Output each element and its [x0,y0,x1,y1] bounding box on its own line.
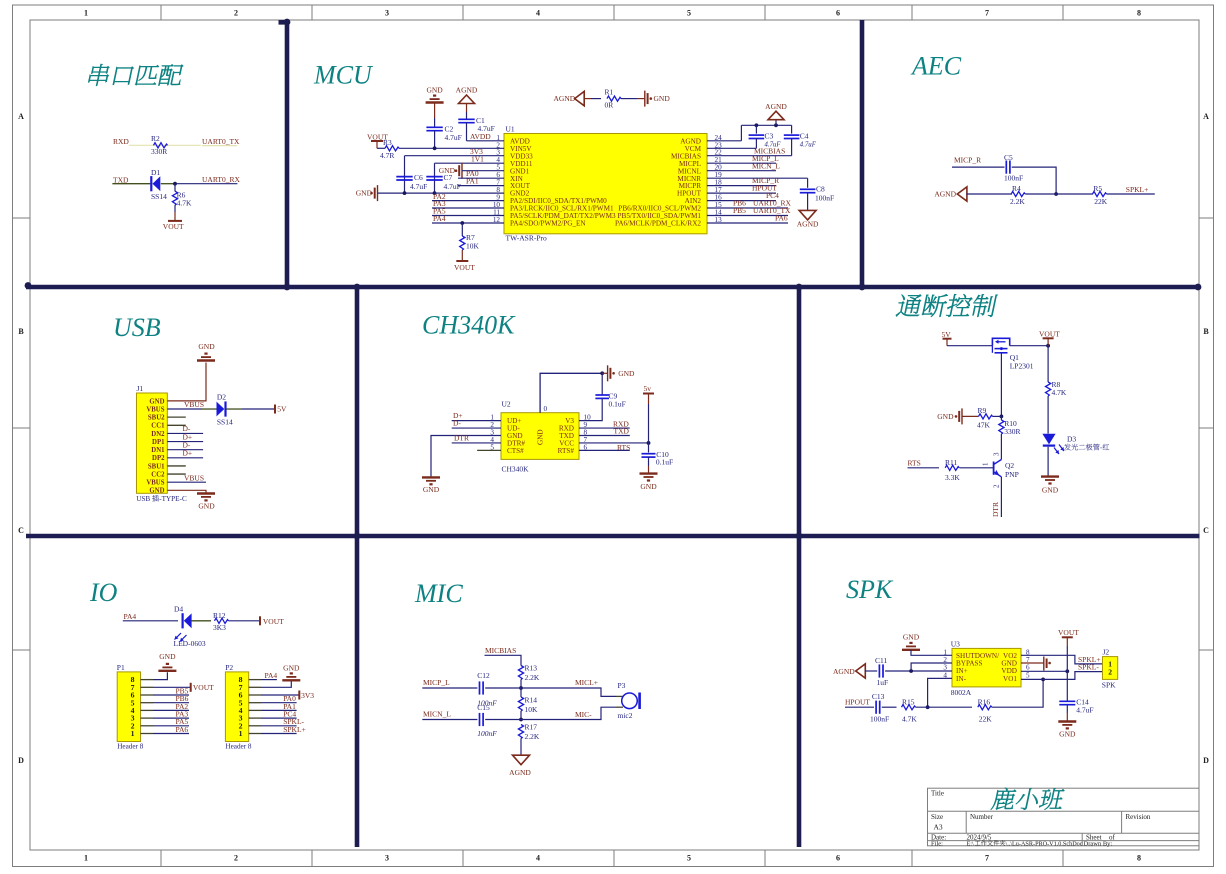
svg-text:LP2301: LP2301 [1010,362,1034,371]
net label PA6 (P1) and wire pin1 [141,733,154,735]
resistor R7 [460,236,465,250]
wire U2 pin6 [579,449,630,451]
wire junction to R5 [1056,193,1093,195]
power port AGND (MCU right) [775,119,777,126]
svg-text:SPK: SPK [1102,681,1116,690]
wire P2 pin7 to GND [249,686,261,688]
capacitor C13 [875,701,877,714]
wire R15 to junction to R16 [916,706,973,708]
svg-text:22K: 22K [979,714,993,723]
svg-text:CC1: CC1 [151,423,165,430]
resistor R3 [385,146,399,151]
svg-text:GND: GND [159,652,176,661]
wire MICP_R to C5 [952,166,1005,168]
svg-text:RTS#: RTS# [558,447,575,455]
svg-text:4.7uF: 4.7uF [1076,706,1093,715]
svg-text:1uF: 1uF [877,678,889,687]
wire pin22 MICBIAS [707,155,792,157]
svg-text:PA4: PA4 [124,612,137,621]
svg-text:5V: 5V [277,405,287,414]
svg-text:6: 6 [836,854,840,863]
svg-text:PA4: PA4 [265,671,278,680]
svg-text:1: 1 [84,854,88,863]
svg-text:RXD: RXD [113,137,129,146]
svg-text:SS14: SS14 [151,192,167,201]
svg-text:C3: C3 [765,132,774,141]
wire 5V to Q1 [947,345,992,347]
wire VDD junction down to C14 [1066,671,1068,701]
svg-text:R16: R16 [978,698,991,707]
svg-text:C8: C8 [816,185,825,194]
svg-text:AEC: AEC [910,52,962,81]
svg-text:R12: R12 [213,611,226,620]
svg-text:J1: J1 [137,384,144,393]
wire R8 to D3 [1047,396,1049,434]
svg-text:C15: C15 [477,703,490,712]
wire U3 pin4 IN- [928,678,952,707]
svg-text:U3: U3 [951,639,960,648]
svg-text:2: 2 [1108,667,1112,676]
net label SPKL+ (P2) and wire pin1 [249,733,261,735]
svg-text:DN2: DN2 [151,431,165,438]
svg-text:GND: GND [356,189,373,198]
divider junction dots [284,284,291,291]
svg-text:MICL+: MICL+ [575,678,598,687]
resistor R2 [154,143,168,148]
wire P1 pin7 to VOUT [141,686,154,688]
svg-text:P2: P2 [225,663,233,672]
wire U2 pin3 GND [431,436,501,478]
wire GND junction down to C9 [601,373,603,394]
connector J1 USB TYPE-C body [137,393,168,493]
svg-text:PA4/SDO/PWM2/PG_EN: PA4/SDO/PWM2/PG_EN [510,220,586,228]
wire AGND to C1 [466,104,468,113]
wire MICL+ row to P3 [521,688,616,696]
svg-text:VOUT: VOUT [163,222,184,231]
net label PA1 (P2) and wire pin4 [249,709,261,711]
svg-text:MIC: MIC [414,579,463,608]
wire pin15 [707,207,788,209]
wire pin10 PA3 [432,207,504,209]
power port VOUT (P1) [190,683,192,692]
net label PC4 (P2) and wire pin3 [249,717,261,719]
svg-text:1V1: 1V1 [471,154,484,163]
svg-text:3: 3 [993,452,1001,456]
wire J1 pin GND bottom [167,490,206,493]
svg-text:AGND: AGND [456,86,478,95]
svg-text:0.1uF: 0.1uF [609,400,626,409]
svg-text:D3: D3 [1067,435,1076,444]
power ground GND (C14) [1058,720,1076,722]
wire pin1 AVDD [467,140,505,142]
svg-text:Revision: Revision [1126,813,1151,821]
wire R4 to junction [1025,193,1056,195]
svg-text:R15: R15 [902,698,915,707]
svg-text:C6: C6 [414,173,423,182]
svg-text:GND: GND [903,633,920,642]
svg-text:5V: 5V [942,330,952,339]
section divider vertical mid-1 [355,287,360,536]
resistor R9 [979,414,993,419]
power ground GND (C10) [640,472,658,474]
IC U2 CH340K body [501,413,579,460]
wire U2 pin7 VCC to 5v rail [579,442,649,444]
svg-text:MICP_R: MICP_R [954,156,981,165]
wire Q2 emitter to DTR [1000,477,1002,517]
wire U2 pin9 [579,427,630,429]
wire R16 up to VO1 row [992,679,1043,707]
wire D2 to 5V [226,408,242,410]
capacitor C8 [800,188,816,190]
wire pin20 [707,170,776,172]
svg-text:AGND: AGND [934,190,956,199]
wire pin11 PA5 [432,215,504,217]
wire pin16 [707,200,776,202]
section divider vertical bottom-1 [355,536,360,847]
svg-text:USB: USB [113,313,161,342]
capacitor C3 [755,125,757,133]
svg-text:VBUS: VBUS [184,400,204,409]
svg-text:4: 4 [536,854,540,863]
svg-text:Header 8: Header 8 [225,743,252,751]
svg-text:P3: P3 [618,681,626,690]
power port VOUT (R7) [456,260,468,262]
svg-text:D+: D+ [183,449,193,458]
svg-text:SS14: SS14 [217,417,233,426]
connector P1 Header 8 body [117,672,140,742]
wire C8 to AGND [807,193,809,211]
svg-text:2.2K: 2.2K [1010,197,1025,206]
svg-text:DTR: DTR [454,434,469,443]
wire C11 to U3 pin3 [885,670,952,672]
wire GND to U3 pin1 [911,650,952,655]
pin stub CC2 [167,473,186,475]
svg-text:7: 7 [985,9,989,18]
svg-text:4.7uF: 4.7uF [410,182,427,191]
power port VOUT (IO) [259,616,261,625]
IC U3 8002A body [952,648,1021,687]
node junction TXD/R6 [175,183,237,185]
wire pin19 MICNR to C8 [707,177,808,179]
svg-text:3V3: 3V3 [301,691,314,700]
svg-text:6: 6 [836,9,840,18]
resistor R11 [945,465,959,470]
svg-text:2.2K: 2.2K [525,673,540,682]
wire U2 pin2 [452,427,501,429]
section divider vertical top-1 [279,22,288,287]
power port 5V (USB) [274,405,276,414]
svg-text:100nF: 100nF [815,194,834,203]
wire D4 to R12 [191,620,211,622]
wire GND rail row [378,192,435,194]
svg-text:0: 0 [544,405,548,413]
svg-text:MICN_L: MICN_L [423,710,451,719]
wire P1 pin8 to GND [141,679,154,681]
power port 3V3 (P2) [298,691,300,700]
svg-text:3: 3 [385,854,389,863]
svg-text:MICBIAS: MICBIAS [485,646,516,655]
wire C12 to junction [485,687,521,689]
svg-text:100nF: 100nF [1004,174,1023,183]
wire pin14 [707,215,788,217]
svg-text:PA1: PA1 [466,177,479,186]
svg-text:MICP_L: MICP_L [423,678,450,687]
section divider vertical top-2 [860,20,865,287]
power ground GND (D3) [1041,475,1059,477]
svg-text:MCU: MCU [313,61,374,90]
svg-text:C4: C4 [800,132,809,141]
svg-text:LED-0603: LED-0603 [174,639,206,648]
svg-text:HPOUT: HPOUT [845,698,870,707]
capacitor C14 [1059,700,1075,702]
svg-text:DN1: DN1 [151,447,165,454]
svg-text:TXD: TXD [614,427,630,436]
svg-text:5v: 5v [644,384,652,393]
capacitor C7 [426,176,442,178]
svg-text:SPKL+: SPKL+ [1126,185,1149,194]
svg-text:GND: GND [1059,730,1076,739]
wire R3 to pin2 with junction [399,147,504,149]
resistor R15 [902,705,916,710]
wire C10 to GND [648,457,650,466]
svg-text:C13: C13 [872,692,885,701]
svg-text:4.7uF: 4.7uF [444,182,461,191]
svg-text:4.7uF: 4.7uF [800,142,817,149]
svg-text:GND: GND [149,398,164,405]
wire R13 to MICL+ row [520,680,522,689]
svg-text:22K: 22K [1094,197,1108,206]
wire MICBIAS [485,655,522,665]
svg-text:TXD: TXD [113,175,129,184]
wire pin21 [707,162,776,164]
svg-text:UART0_RX: UART0_RX [202,175,240,184]
svg-text:VOUT: VOUT [1039,330,1060,339]
svg-text:R1: R1 [605,88,614,97]
wire R11 to Q2 base [960,467,994,469]
svg-text:0.1uF: 0.1uF [656,458,673,467]
capacitor C4 [791,125,793,133]
svg-text:AGND: AGND [554,94,576,103]
power ground GND (J1 bottom) [197,492,215,494]
wire pin3 3V3 rail [405,155,505,157]
svg-text:CTS#: CTS# [507,447,524,455]
svg-text:A3: A3 [934,823,943,832]
svg-text:PB5: PB5 [733,206,746,215]
svg-text:1: 1 [131,729,135,738]
wire P2 pin6 to 3V3 [249,694,261,696]
svg-text:1: 1 [84,9,88,18]
svg-text:3K3: 3K3 [213,623,226,632]
svg-text:AGND: AGND [765,102,787,111]
svg-text:GND: GND [640,482,657,491]
svg-text:CH340K: CH340K [502,465,530,474]
svg-text:P1: P1 [117,663,125,672]
svg-text:SPKL+: SPKL+ [283,725,306,734]
power ground GND (R1 row) [644,91,646,107]
svg-text:5: 5 [1026,671,1030,679]
svg-text:CC2: CC2 [151,471,165,478]
svg-text:VO1: VO1 [1003,675,1017,683]
svg-text:10K: 10K [525,705,539,714]
pin stub CC1 [167,424,186,426]
wire U2 pin1 [452,420,501,422]
svg-text:J2: J2 [1103,648,1110,657]
wire VBUS to D2 [167,408,202,410]
svg-text:2.2K: 2.2K [525,732,540,741]
svg-text:2: 2 [234,854,238,863]
svg-text:R9: R9 [978,406,987,415]
power port VOUT (串口匹配) [168,220,182,222]
power port AGND (MIC) [513,755,530,765]
wire GND to R9 [962,415,979,417]
resistor R10 [1000,416,1002,420]
svg-text:PA6/MCLK/PDM_CLK/RX2: PA6/MCLK/PDM_CLK/RX2 [615,220,701,228]
svg-text:R4: R4 [1012,184,1021,193]
connector J2 SPK body [1103,657,1118,680]
wire R7 to VOUT [461,250,463,261]
svg-text:USB: USB [136,495,150,503]
section title 通断控制 [896,294,922,316]
svg-text:U1: U1 [506,125,515,134]
wire R1 to GND [621,98,637,100]
wire Q1 to VOUT junction [1010,345,1048,347]
wire AGND to R1 [584,98,591,100]
resistor R6 [172,191,177,205]
svg-text:100nF: 100nF [477,729,497,738]
diode D1 [150,176,152,191]
wire MIC- row to P3 [521,707,616,719]
wire Q1 gate down [1000,353,1002,417]
wire R5 to SPKL+ [1107,193,1155,195]
svg-text:SPKL+: SPKL+ [1078,655,1101,664]
svg-text:3.3K: 3.3K [945,473,960,482]
section title 串口匹配 [88,64,109,86]
pin stub SBU1 [167,465,186,467]
wire D1 to junction [161,183,175,185]
wire RTS to R11 [908,467,940,469]
svg-text:GND: GND [149,488,164,495]
svg-text:PA4: PA4 [433,214,446,223]
wire U2 pin8 [579,435,630,437]
svg-text:Drawn By:: Drawn By: [1084,840,1113,847]
net label PB6 (P1) and wire pin5 [141,702,154,704]
svg-text:AGND: AGND [509,768,531,777]
svg-text:4: 4 [536,9,540,18]
svg-text:47K: 47K [977,420,991,429]
wire R12 to VOUT [229,620,261,622]
svg-text:GND: GND [537,429,545,445]
svg-text:GND: GND [283,664,300,673]
wire pin9 PA2 [432,200,504,202]
svg-text:0R: 0R [605,101,614,110]
svg-text:D4: D4 [174,605,183,614]
svg-text:C11: C11 [875,656,887,665]
wire pin12 PA4 [432,222,504,224]
diode D2 [217,402,225,417]
wire R9 to gate junction [993,415,1002,417]
diode D3 LED red [1042,434,1055,445]
svg-text:IO: IO [89,578,118,607]
svg-text:C: C [1203,526,1209,535]
wire PA4 to D4 [123,620,178,622]
svg-text:D2: D2 [217,393,226,402]
svg-text:2: 2 [234,9,238,18]
wire AGND to C11 [865,670,878,672]
svg-text:DP1: DP1 [152,439,165,446]
wire R10 to Q2 collector [1000,434,1002,460]
svg-text:3: 3 [385,9,389,18]
wire U2 top pin loop to GND [540,373,602,412]
svg-text:330R: 330R [1004,427,1020,436]
wire D3 to GND [1047,447,1049,477]
svg-text:SBU2: SBU2 [148,415,165,422]
wire C13 to R15 [882,706,897,708]
wire U3 pin5 VO1 to SPKL- [1021,672,1103,680]
svg-text:VOUT: VOUT [263,617,284,626]
svg-text:R2: R2 [151,134,160,143]
svg-text:R3: R3 [383,138,392,147]
wire BYPASS jog [911,663,952,671]
svg-text:GND: GND [654,94,671,103]
wire RXD row [129,144,201,146]
wire AGND to R4 [966,193,1012,195]
svg-text:GND: GND [198,502,215,511]
wire GND to C2 [434,103,436,119]
svg-text:C5: C5 [1004,153,1013,162]
svg-text:5: 5 [687,9,691,18]
svg-text:B: B [18,327,24,336]
svg-text:AGND: AGND [797,220,819,229]
section divider horizontal 2 [26,534,1200,538]
svg-text:B: B [1203,327,1209,336]
diode D4 LED-0603 [182,613,184,628]
capacitor C10 [642,453,656,455]
resistor R8 [1046,382,1051,396]
title text 鹿小班 [991,788,1016,810]
resistor R1 [607,96,621,101]
svg-text:MIC-: MIC- [575,710,592,719]
svg-text:4.7K: 4.7K [177,198,192,207]
net label PA3 (P1) and wire pin3 [141,717,154,719]
power ground GND (U2 top) [602,372,607,374]
svg-text:4.7uF: 4.7uF [445,133,462,142]
connector P2 Header 8 body [225,672,248,742]
wire C15 to junction [485,719,521,721]
svg-text:CH340K: CH340K [422,311,516,340]
svg-text:A: A [18,112,24,121]
wire C5 to corner junction [1012,167,1056,194]
capacitor C6 [396,176,412,178]
svg-text:VOUT: VOUT [1058,628,1079,637]
wire pin4 1V1 rail [435,162,505,164]
svg-text:R17: R17 [525,723,538,732]
title block [928,788,1200,846]
svg-text:GND: GND [937,412,954,421]
svg-text:Q2: Q2 [1005,461,1014,470]
svg-text:8002A: 8002A [951,688,972,697]
svg-text:GND: GND [439,166,456,175]
svg-text:IN-: IN- [956,675,967,683]
svg-text:Number: Number [970,813,994,821]
svg-text:D-: D- [453,419,461,428]
svg-text:AGND: AGND [833,667,855,676]
capacitor C1 [458,118,474,120]
svg-text:GND: GND [426,86,443,95]
svg-text:R14: R14 [525,696,538,705]
svg-text:E:\: E:\ [967,840,974,847]
resistor R13 [518,666,523,680]
svg-text:A: A [1203,112,1209,121]
